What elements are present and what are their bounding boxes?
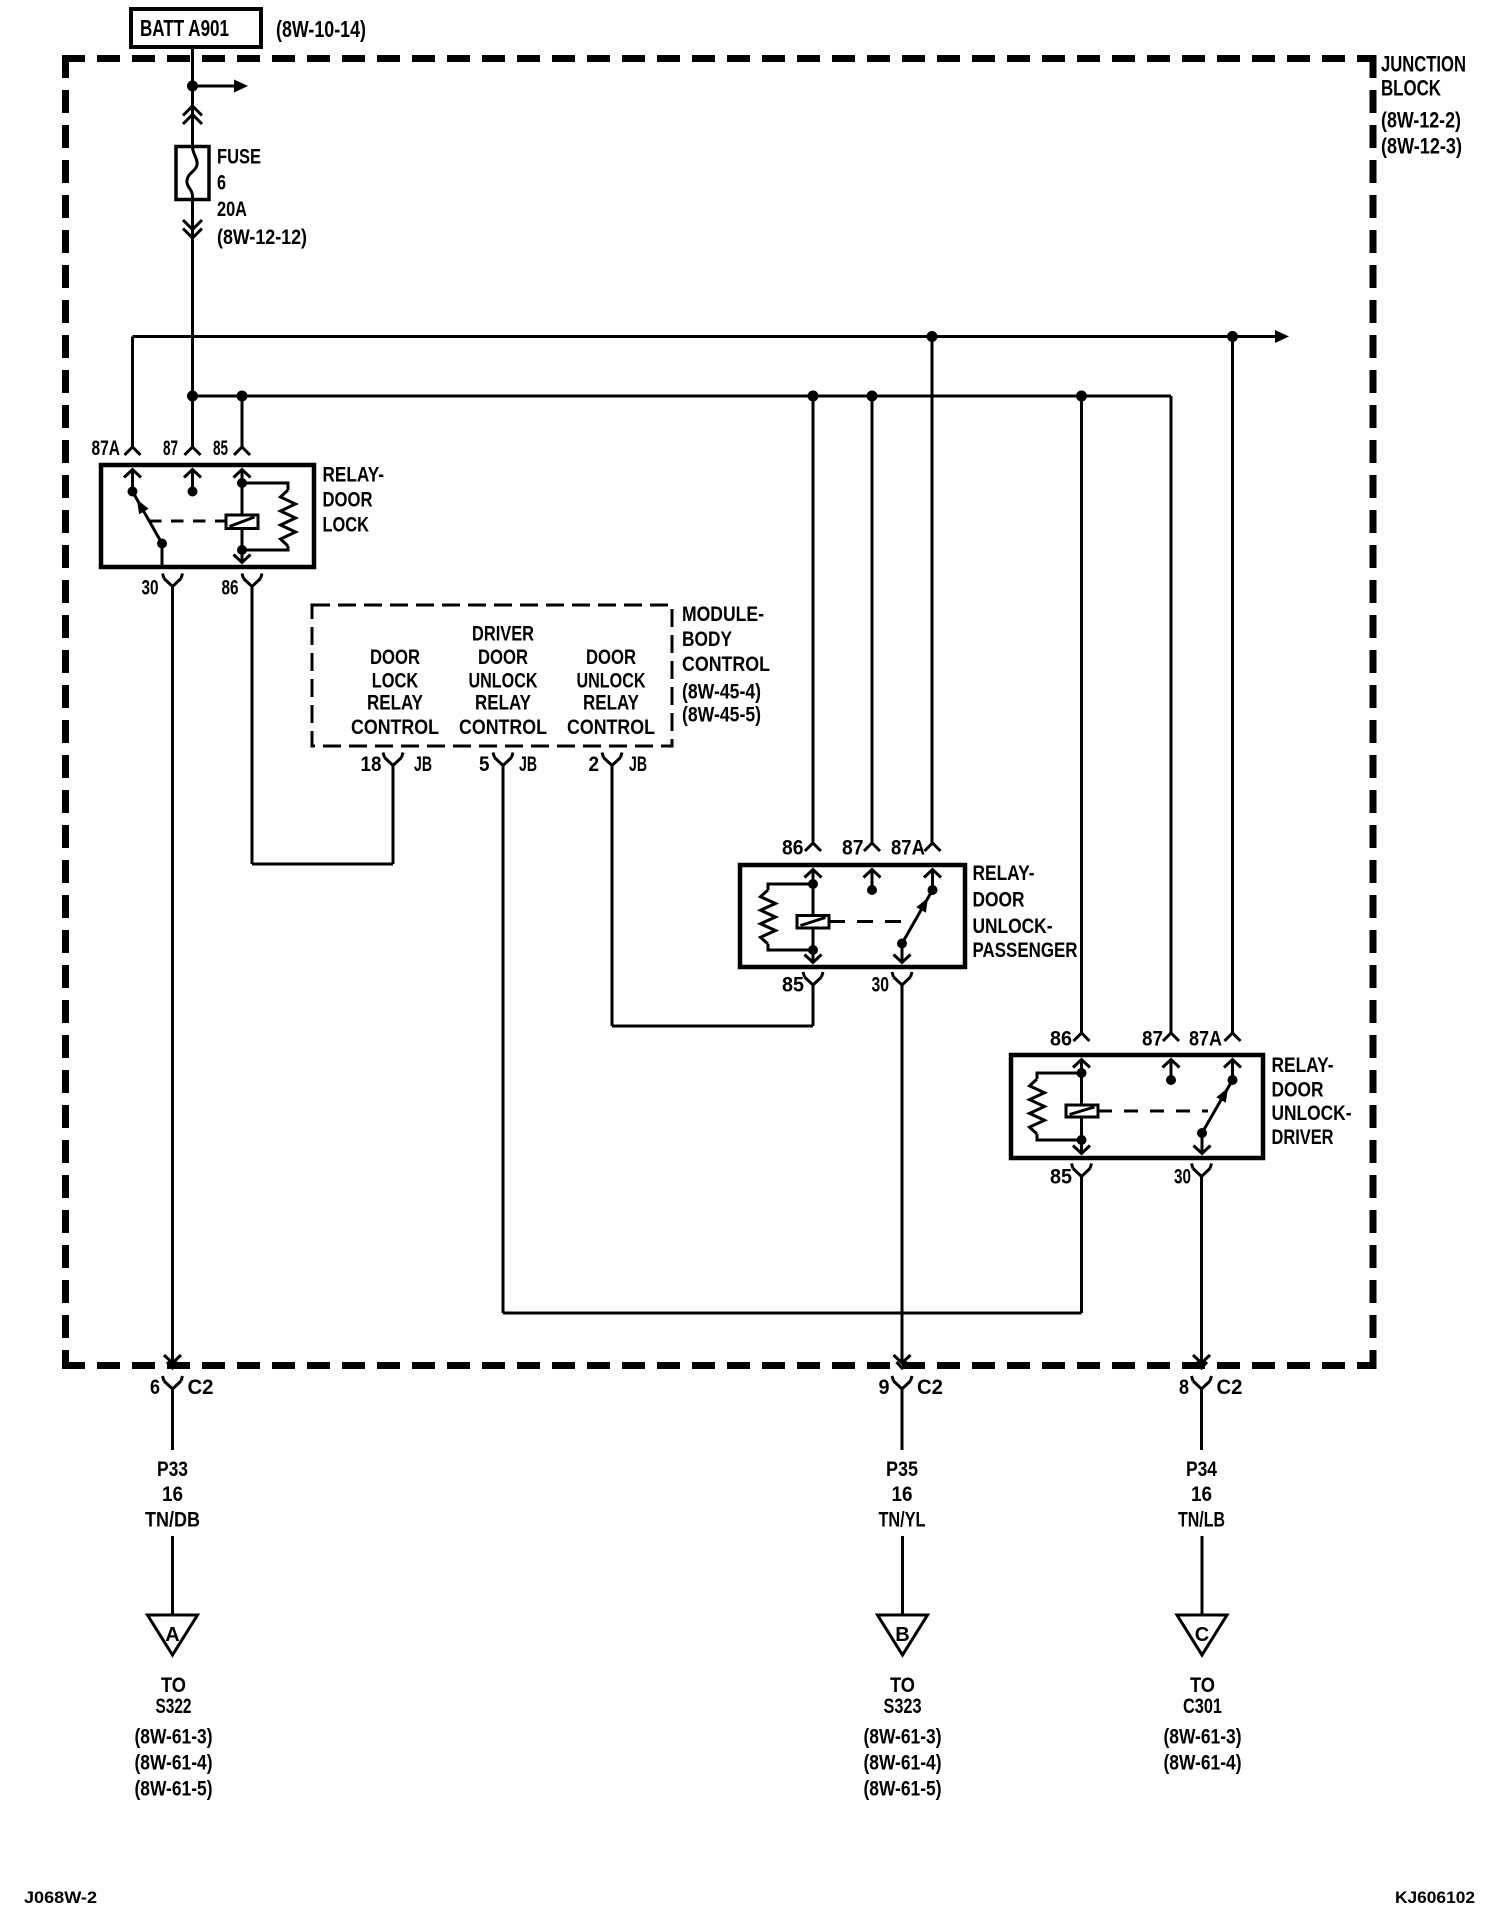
arrow branch to right — [193, 85, 236, 88]
svg-text:(8W-12-3): (8W-12-3) — [1381, 134, 1462, 159]
fuse F6 20A — [176, 147, 209, 200]
svg-text:87A: 87A — [891, 837, 925, 860]
wire relay1 pin30 to exit — [171, 587, 174, 1364]
relay driver resistor — [1037, 1073, 1082, 1079]
svg-text:30: 30 — [872, 974, 890, 997]
svg-text:BLOCK: BLOCK — [1381, 76, 1441, 101]
relay R1 switch arm — [133, 492, 163, 544]
relay passenger switch arm — [902, 890, 933, 944]
svg-text:18: 18 — [361, 753, 382, 776]
svg-text:C301: C301 — [1183, 1695, 1222, 1718]
exit arrow at junction border x=902 — [894, 1355, 911, 1363]
svg-text:85: 85 — [1050, 1166, 1072, 1189]
svg-text:DRIVER: DRIVER — [472, 623, 534, 646]
relay driver pin 85 exit — [1080, 1140, 1083, 1154]
connector chevrons up — [183, 106, 202, 116]
wire battery feed down — [191, 47, 194, 147]
wire bus lower — [193, 395, 1172, 398]
svg-text:DOOR: DOOR — [370, 646, 420, 669]
relay driver pin 86 internal — [1073, 1060, 1090, 1068]
svg-text:16: 16 — [892, 1483, 913, 1506]
svg-text:RELAY: RELAY — [583, 692, 639, 715]
wire bus upper — [133, 335, 1277, 338]
pin 85 connector passenger — [805, 977, 822, 985]
relay driver coil — [1080, 1073, 1083, 1105]
svg-text:BATT A901: BATT A901 — [140, 15, 229, 41]
svg-text:PASSENGER: PASSENGER — [973, 939, 1078, 962]
svg-text:C2: C2 — [917, 1376, 943, 1399]
svg-text:DRIVER: DRIVER — [1272, 1126, 1334, 1149]
wire bus upper drop to 87A relay1 — [131, 337, 134, 448]
wire below connector — [901, 1389, 904, 1450]
svg-text:(8W-61-3): (8W-61-3) — [864, 1726, 942, 1749]
pin 30 connector passenger — [894, 977, 911, 985]
wire passenger 85 down — [812, 985, 815, 1026]
wire to driver pin 86 — [1080, 396, 1083, 1033]
wire module pin2 down — [611, 766, 614, 1027]
svg-text:9: 9 — [879, 1376, 890, 1399]
svg-text:TN/LB: TN/LB — [1178, 1509, 1225, 1532]
svg-text:85: 85 — [782, 974, 804, 997]
svg-text:J068W-2: J068W-2 — [24, 1888, 97, 1907]
svg-text:30: 30 — [142, 577, 159, 600]
exit arrow at junction border x=172.5 — [164, 1355, 181, 1363]
wire passenger 30 to exit — [901, 985, 904, 1363]
svg-text:RELAY-: RELAY- — [323, 464, 385, 487]
node bus upper passenger 87A — [927, 331, 938, 342]
svg-text:JB: JB — [519, 753, 537, 776]
svg-text:FUSE: FUSE — [217, 146, 261, 169]
svg-text:CONTROL: CONTROL — [567, 716, 655, 739]
svg-text:DOOR: DOOR — [586, 646, 636, 669]
wire to relay1 pin 85 — [241, 396, 244, 447]
svg-text:(8W-10-14): (8W-10-14) — [276, 16, 366, 42]
svg-text:RELAY: RELAY — [367, 692, 423, 715]
svg-text:(8W-61-5): (8W-61-5) — [864, 1778, 942, 1801]
pin 87 connector passenger — [864, 843, 880, 851]
svg-text:87A: 87A — [1189, 1028, 1222, 1051]
svg-text:(8W-61-3): (8W-61-3) — [135, 1726, 213, 1749]
wire relay1 pin86 down — [251, 587, 254, 865]
svg-text:CONTROL: CONTROL — [459, 716, 547, 739]
svg-text:S323: S323 — [884, 1695, 922, 1718]
off-page connector triangle B — [878, 1615, 928, 1655]
svg-text:RELAY: RELAY — [475, 692, 531, 715]
pin 30 connector relay1 — [164, 579, 181, 587]
wire relay1-86 to module pin18 — [252, 863, 393, 866]
svg-text:6: 6 — [217, 172, 226, 195]
node bus lower passenger 87 — [867, 391, 878, 402]
relay R1 pin 87 internal — [184, 470, 201, 478]
svg-text:S322: S322 — [156, 1695, 192, 1718]
svg-text:(8W-12-12): (8W-12-12) — [217, 226, 307, 249]
wire module pin5 down — [502, 766, 505, 1314]
relay R1 resistor — [242, 483, 288, 490]
svg-text:BODY: BODY — [682, 628, 732, 651]
wire to driver pin 87 — [1170, 396, 1173, 1033]
pin 87A connector driver — [1225, 1033, 1241, 1041]
module body control dashed box — [312, 605, 672, 746]
relay passenger resistor — [768, 884, 813, 890]
wire pin5 to driver85 — [503, 1312, 1082, 1315]
node bus upper driver 87A — [1227, 331, 1238, 342]
svg-text:87: 87 — [163, 437, 178, 460]
svg-text:B: B — [895, 1624, 909, 1646]
relay R1 pin 87A internal — [124, 470, 141, 478]
relay R1 coil — [226, 515, 258, 529]
svg-text:87: 87 — [842, 837, 864, 860]
svg-text:DOOR: DOOR — [1272, 1079, 1324, 1102]
svg-text:TN/YL: TN/YL — [879, 1509, 926, 1532]
relay R1 door lock box — [101, 465, 314, 567]
svg-text:UNLOCK: UNLOCK — [577, 670, 646, 693]
svg-text:(8W-61-3): (8W-61-3) — [1164, 1726, 1242, 1749]
svg-text:DOOR: DOOR — [323, 489, 373, 512]
off-page connector triangle C — [1177, 1615, 1227, 1655]
svg-text:TO: TO — [890, 1674, 915, 1697]
pin 86 connector driver — [1074, 1033, 1090, 1041]
wire to passenger pin 87 — [871, 396, 874, 843]
wire pin2 to passenger85 — [612, 1025, 813, 1028]
svg-text:LOCK: LOCK — [323, 514, 370, 537]
relay passenger pin 86 internal — [805, 870, 822, 878]
svg-text:C2: C2 — [1217, 1376, 1243, 1399]
svg-text:JB: JB — [414, 753, 432, 776]
svg-text:2: 2 — [589, 753, 600, 776]
node bus lower passenger 86 — [808, 391, 819, 402]
svg-text:(8W-45-5): (8W-45-5) — [682, 704, 761, 727]
svg-text:20A: 20A — [217, 198, 247, 221]
relay passenger pin 85 exit — [812, 950, 815, 963]
relay driver pin 87 internal — [1163, 1060, 1180, 1068]
relay driver pin 87A internal — [1224, 1060, 1241, 1068]
svg-text:(8W-45-4): (8W-45-4) — [682, 681, 761, 704]
node fuse-bus junction — [187, 391, 198, 402]
relay driver switch arm — [1202, 1080, 1233, 1133]
relay R1 pin 86 exit chevron — [241, 550, 244, 563]
junction block dashed border — [62, 55, 1377, 62]
svg-text:UNLOCK-: UNLOCK- — [973, 915, 1053, 938]
svg-text:TN/DB: TN/DB — [145, 1509, 200, 1532]
svg-text:86: 86 — [782, 837, 804, 860]
svg-text:16: 16 — [162, 1483, 183, 1506]
relay passenger pin 87A internal — [924, 870, 941, 878]
relay R1 pin 85 internal — [234, 470, 251, 478]
svg-text:P35: P35 — [886, 1458, 918, 1481]
svg-text:CONTROL: CONTROL — [682, 653, 770, 676]
svg-text:RELAY-: RELAY- — [973, 862, 1035, 885]
wire below connector — [1200, 1389, 1203, 1450]
pin 87 connector driver — [1163, 1033, 1179, 1041]
svg-text:JUNCTION: JUNCTION — [1381, 52, 1466, 77]
svg-text:16: 16 — [1191, 1483, 1212, 1506]
wire to off-page connector C — [1201, 1536, 1204, 1615]
wire driver 30 to exit — [1200, 1177, 1203, 1364]
wire module pin18 down — [392, 766, 395, 865]
relay door unlock passenger box — [740, 865, 965, 967]
svg-text:86: 86 — [222, 577, 239, 600]
svg-text:C: C — [1195, 1624, 1209, 1646]
wire to passenger pin 86 — [812, 396, 815, 843]
svg-text:(8W-61-4): (8W-61-4) — [864, 1752, 942, 1775]
svg-text:30: 30 — [1174, 1166, 1191, 1189]
relay door unlock driver box — [1011, 1055, 1263, 1158]
pin 87 connector relay1 — [185, 447, 201, 455]
svg-text:DOOR: DOOR — [973, 889, 1025, 912]
battery feed box BATT A901 — [131, 9, 261, 47]
svg-text:86: 86 — [1050, 1028, 1072, 1051]
svg-text:8: 8 — [1179, 1376, 1189, 1399]
wire to off-page connector B — [901, 1536, 904, 1615]
svg-text:UNLOCK-: UNLOCK- — [1272, 1102, 1352, 1125]
svg-text:P34: P34 — [1186, 1458, 1217, 1481]
wire to relay1 pin 87 — [191, 396, 194, 447]
wire fuse to bus — [191, 200, 194, 397]
pin 86 connector relay1 — [244, 579, 261, 587]
svg-text:(8W-61-4): (8W-61-4) — [1164, 1752, 1242, 1775]
pin 87A connector passenger — [925, 843, 941, 851]
relay R1 switch to pin 30 — [161, 544, 164, 568]
exit arrow at junction border x=1201.5 — [1193, 1355, 1210, 1363]
svg-text:(8W-12-2): (8W-12-2) — [1381, 108, 1461, 133]
connector chevrons down — [183, 220, 202, 230]
node bus lower driver 86 — [1076, 391, 1087, 402]
svg-text:6: 6 — [150, 1376, 160, 1399]
svg-text:87: 87 — [1142, 1028, 1163, 1051]
relay passenger pin 87 internal — [864, 870, 881, 878]
wire to off-page connector A — [171, 1536, 174, 1615]
relay passenger actuator dashed link — [829, 920, 908, 923]
svg-text:87A: 87A — [92, 437, 121, 460]
svg-text:KJ606102: KJ606102 — [1395, 1888, 1475, 1907]
node bus lower relay1 85 — [237, 391, 248, 402]
pin 85 connector driver — [1073, 1169, 1090, 1177]
wire driver 85 down — [1080, 1177, 1083, 1314]
svg-text:(8W-61-5): (8W-61-5) — [135, 1778, 213, 1801]
svg-text:5: 5 — [479, 753, 490, 776]
svg-text:(8W-61-4): (8W-61-4) — [135, 1752, 213, 1775]
svg-text:MODULE-: MODULE- — [682, 603, 764, 626]
relay driver actuator dashed link — [1098, 1110, 1208, 1113]
svg-text:TO: TO — [161, 1674, 186, 1697]
relay R1 actuator dashed link — [149, 520, 226, 523]
svg-text:TO: TO — [1190, 1674, 1215, 1697]
relay passenger coil — [812, 884, 815, 916]
wire below connector — [171, 1389, 174, 1450]
svg-text:RELAY-: RELAY- — [1272, 1054, 1334, 1077]
svg-text:DOOR: DOOR — [478, 646, 528, 669]
wire to driver pin 87A — [1231, 337, 1234, 1034]
pin 30 connector driver — [1193, 1169, 1210, 1177]
pin 87A connector relay1 — [125, 447, 141, 455]
svg-text:CONTROL: CONTROL — [351, 716, 439, 739]
svg-text:C2: C2 — [188, 1376, 214, 1399]
svg-text:85: 85 — [213, 437, 228, 460]
off-page connector triangle A — [148, 1615, 198, 1655]
svg-text:P33: P33 — [157, 1458, 188, 1481]
svg-text:UNLOCK: UNLOCK — [469, 670, 538, 693]
wire to passenger pin 87A — [931, 337, 934, 844]
svg-text:LOCK: LOCK — [372, 670, 419, 693]
svg-text:A: A — [165, 1624, 179, 1646]
pin 86 connector passenger — [805, 843, 821, 851]
pin 85 connector relay1 — [234, 447, 250, 455]
node battery branch — [187, 81, 198, 92]
svg-text:JB: JB — [629, 753, 647, 776]
